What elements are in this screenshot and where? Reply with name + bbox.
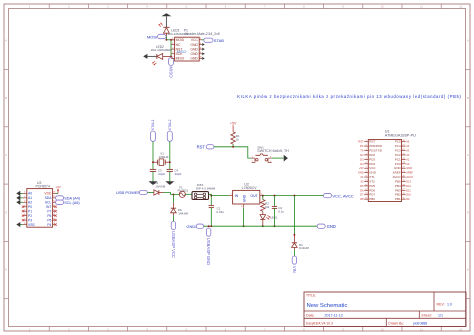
svg-text:AREF: AREF [406,171,413,175]
svg-text:PD0/RXD: PD0/RXD [369,144,383,148]
svg-text:TITLE:: TITLE: [306,293,316,297]
svg-text:D5: D5 [360,184,364,188]
port VIN (vertical) [292,256,297,273]
fuse F1 [179,191,185,197]
wire R1 to node [232,144,234,147]
label R2 [265,202,270,209]
svg-text:16: 16 [403,193,405,195]
wire U3 SCL [55,201,57,203]
svg-text:RST: RST [369,140,375,144]
label U1 value [385,134,416,138]
svg-text:DIP 4-2.54MM: DIP 4-2.54MM [196,186,216,190]
svg-text:VDD: VDD [44,192,52,196]
svg-text:PD3: PD3 [369,157,375,161]
jumper DIP1 [192,192,209,200]
port USB POWER [116,190,147,195]
wire SW1 to gnd [272,157,284,159]
svg-text:2: 2 [366,145,367,147]
svg-text:GND: GND [394,166,402,170]
port STAB [204,38,224,43]
crystal X1 [153,159,170,166]
svg-text:10: 10 [381,5,384,9]
svg-text:GND: GND [190,43,198,47]
svg-text:VSS: VSS [28,223,35,227]
svg-text:X1: X1 [360,175,364,179]
svg-text:16MHZ: 16MHZ [159,155,169,159]
wire C2 to rail [274,208,276,226]
wire U3 SDA [55,197,57,199]
svg-text:7: 7 [366,167,367,169]
svg-text:10k: 10k [265,205,270,209]
svg-text:P6: P6 [47,214,51,218]
port RST [197,145,214,150]
port GND [317,224,336,229]
svg-text:E: E [5,268,7,272]
svg-text:SDA: SDA [45,196,53,200]
svg-text:RX: RX [360,144,364,148]
svg-text:D: D [5,210,7,214]
svg-text:26: 26 [403,149,405,151]
wire vertical at P1 left [170,40,172,58]
label U2 [244,182,249,186]
label U3 [37,181,41,185]
label D1 [299,243,309,250]
wire D4 node to D6 [172,194,174,208]
wire U2 OUT to VCC port [263,195,323,197]
svg-text:PD5: PD5 [369,184,375,188]
svg-text:XT1: XT1 [369,175,375,179]
svg-text:17: 17 [403,189,405,191]
svg-text:D8: D8 [360,197,364,201]
label LED2 [156,45,164,49]
svg-text:6: 6 [366,162,367,164]
junction dot at C1 [210,195,212,197]
svg-text:KILKA pinów z bezpiecznikami k: KILKA pinów z bezpiecznikami kilka z prz… [237,94,461,99]
svg-text:1k: 1k [236,138,240,142]
junction dot D4/D6 [172,193,174,195]
svg-text:A1: A1 [28,196,32,200]
svg-text:GND: GND [190,47,198,51]
junction dot R2 top [262,195,264,197]
IC U1 ATMEGA328P [358,140,414,202]
netlabel on P1 SCK [177,50,187,54]
power flag +5V at R1 [230,122,237,132]
title block [304,292,466,327]
svg-text:5: 5 [366,158,367,160]
svg-text:9: 9 [366,175,367,177]
svg-text:14: 14 [365,198,367,200]
wire C3 to gnd [152,171,154,182]
diode D1 [292,243,298,250]
svg-text:PC1: PC1 [395,157,401,161]
label X1 [160,152,164,156]
svg-text:GND: GND [190,57,198,61]
wire P1 pin2 to STAB [202,39,204,41]
svg-text:A0: A0 [406,162,410,166]
wire U2 GND to rail [243,208,245,226]
svg-text:1N4148: 1N4148 [299,246,309,250]
svg-text:XTAL2: XTAL2 [168,119,172,130]
junction dot LED1 rail [262,225,264,227]
svg-text:PC3: PC3 [395,149,401,153]
wire DIP1 to U2 IN [209,194,230,195]
svg-text:Drawn By:: Drawn By: [388,321,404,325]
label DIP1 value [196,186,216,190]
svg-text:12: 12 [365,189,367,191]
svg-text:PD2: PD2 [369,153,375,157]
svg-text:TX: TX [360,149,364,153]
wire OUT down to R2 [262,196,264,200]
junction dot D1 mid [293,234,295,236]
wire D4 to F1 [163,193,179,195]
svg-text:GND: GND [327,224,336,229]
svg-text:VCC, AVCC: VCC, AVCC [332,193,353,198]
svg-text:D10: D10 [406,193,411,197]
wire USB POWER to D4 [148,192,154,194]
svg-text:0.33u: 0.33u [216,210,224,214]
svg-text:PB5: PB5 [395,179,401,183]
diode D4 [154,190,164,195]
svg-text:+5V: +5V [359,166,364,170]
svg-text:D13: D13 [406,179,411,183]
svg-text:New Schematic: New Schematic [307,303,348,309]
LED D1 indicator (LED1) [260,211,270,226]
svg-text:IN: IN [235,194,239,198]
svg-text:12: 12 [459,327,462,331]
junction dot RST/R1 [232,146,234,148]
wire D6 to USBASP VCC [172,216,174,222]
svg-text:19: 19 [403,180,405,182]
svg-text:D6: D6 [360,188,364,192]
port USBASP GND (vertical) [206,228,211,265]
junction dot MOSI/LED3 [165,39,167,41]
svg-text:P7: P7 [47,209,51,213]
svg-text:SWITCH 6x6x5, TH: SWITCH 6x6x5, TH [257,149,289,153]
svg-text:VCC: VCC [191,38,199,42]
power flag +5V at U3 VDD [55,185,60,194]
junction dot XTAL1 [152,161,154,163]
resistor R2 [261,200,265,212]
label D4 [154,181,165,188]
wire rail to D1 [293,196,295,243]
capacitor C4 [167,169,173,171]
svg-text:USBASP VCC: USBASP VCC [171,231,176,258]
svg-text:20: 20 [403,175,405,177]
junction dot C2 top [274,195,276,197]
label SW1 [257,145,264,149]
wire C4 to gnd [169,171,171,182]
svg-text:STAB: STAB [214,38,224,43]
port MISO (vertical) [169,58,174,79]
svg-text:A: A [5,39,7,43]
svg-text:A0: A0 [28,192,32,196]
svg-text:24: 24 [403,158,405,160]
svg-text:MISO: MISO [176,57,185,61]
svg-text:USBASP GND: USBASP GND [206,238,211,265]
wire OUT down to C2 [274,196,276,206]
ground arrow right of SW1 [284,155,288,162]
port SCL(A5) [56,200,81,205]
svg-text:0.1u: 0.1u [278,209,284,213]
label F1 [178,185,189,192]
svg-text:LED1: LED1 [270,216,278,220]
svg-text:22pF: 22pF [158,172,165,176]
svg-text:P2: P2 [28,214,32,218]
svg-text:15: 15 [403,198,405,200]
junction dot P1 left top [170,39,172,41]
svg-text:11: 11 [420,327,423,331]
svg-text:XT2: XT2 [369,179,375,183]
svg-text:AVCC: AVCC [393,175,402,179]
svg-text:OUT: OUT [250,194,258,198]
svg-text:USB POWER: USB POWER [116,190,141,195]
svg-text:MISO: MISO [177,50,187,54]
wire gnd rail [204,225,317,227]
svg-text:Sheet:: Sheet: [421,314,431,318]
svg-text:A: A [467,39,469,43]
LED D3 (LED3) [159,23,170,37]
svg-text:AVCC: AVCC [406,175,413,179]
junction dot U2 gnd rail [243,225,245,227]
label LED3 [171,28,179,32]
svg-text:C: C [467,153,469,157]
wire C1 to gnd rail [210,208,212,227]
wire XTAL1 down [152,141,154,169]
svg-text:XTAL1: XTAL1 [151,119,155,130]
svg-text:piotro888: piotro888 [413,321,427,325]
switch SW1 [252,154,272,163]
svg-text:A2: A2 [406,153,410,157]
svg-text:Header-Male-2.54_2x5: Header-Male-2.54_2x5 [185,32,220,36]
svg-text:P4: P4 [47,223,51,227]
annotation text [237,94,461,99]
svg-text:11: 11 [365,184,367,186]
port USBASP VCC (vertical) [171,221,176,258]
svg-text:ATMEGA328P-PU: ATMEGA328P-PU [385,134,416,138]
svg-text:D4: D4 [360,162,364,166]
svg-text:AREF: AREF [393,171,401,175]
ground arrows at U3 A0-A2,VSS [16,191,23,227]
svg-text:23: 23 [403,162,405,164]
svg-text:+5V: +5V [230,122,237,126]
label DIP1 [197,183,204,187]
svg-text:PB1: PB1 [395,197,401,201]
wire D1 to VIN [293,250,295,256]
svg-text:25: 25 [403,153,405,155]
svg-text:1N4148: 1N4148 [178,211,188,215]
svg-text:GND: GND [190,52,198,56]
junction dot P1 left LED2 [170,55,172,57]
svg-text:13: 13 [365,193,367,195]
svg-text:GND: GND [243,194,247,202]
svg-text:PB3: PB3 [395,188,401,192]
label C2 [278,206,284,213]
svg-text:8: 8 [366,171,367,173]
svg-text:FUSE01: FUSE01 [178,188,189,192]
svg-text:PB2: PB2 [395,193,401,197]
svg-text:18: 18 [403,184,405,186]
svg-text:12: 12 [459,5,462,9]
svg-text:2017-11-13: 2017-11-13 [325,314,343,318]
capacitor C3 [150,169,156,171]
label U3 value [36,185,50,189]
svg-text:+5V: +5V [55,185,60,189]
svg-text:C: C [5,153,7,157]
IC U3 PCF8574 [23,189,56,228]
label C3 [158,169,165,176]
svg-text:PC2: PC2 [395,153,401,157]
svg-text:PD7: PD7 [369,193,375,197]
svg-text:1.0: 1.0 [447,302,452,306]
svg-text:11: 11 [420,5,423,9]
svg-text:D3: D3 [360,157,364,161]
svg-text:P3: P3 [28,218,32,222]
port VCC,AVCC [324,193,354,198]
label P1 value [185,32,220,36]
junction dot XTAL2 [169,161,171,163]
svg-text:E: E [467,268,469,272]
capacitor C2 [272,206,277,208]
svg-text:D7: D7 [360,193,364,197]
svg-text:EasyEDA V4.10.3: EasyEDA V4.10.3 [306,321,333,325]
label X1 value [159,155,169,159]
svg-text:PCF8574: PCF8574 [36,185,50,189]
svg-text:A2: A2 [28,201,32,205]
svg-text:L7805CV: L7805CV [242,186,258,190]
svg-text:10: 10 [381,327,384,331]
svg-text:D12: D12 [406,184,411,188]
LED D2 (LED2) [152,54,171,66]
ground arrow below C3 [149,181,158,185]
svg-text:22pF: 22pF [175,172,182,176]
label U1 [385,130,390,134]
svg-text:GND: GND [369,171,377,175]
svg-text:B: B [5,96,7,100]
svg-text:REV:: REV: [437,302,445,306]
svg-text:PB4: PB4 [395,184,401,188]
no-connect crosses on U3 [22,206,57,226]
svg-text:27: 27 [403,145,405,147]
label LED1 [270,216,278,220]
label LED3 value [168,32,189,36]
svg-text:SCL: SCL [45,201,52,205]
svg-text:4: 4 [366,153,367,155]
svg-text:GND: GND [358,171,364,175]
svg-text:3: 3 [366,149,367,151]
wire RST to SW1 [214,147,252,158]
label C1 [216,206,224,214]
label R1 [236,134,240,141]
ground arrows at P1 GND pins [202,43,205,60]
svg-text:MOSI: MOSI [147,34,157,39]
svg-text:21: 21 [403,171,405,173]
regulator U2 L7805CV [229,190,263,208]
svg-text:RST: RST [358,140,364,144]
svg-text:P5: P5 [47,218,51,222]
svg-text:X2: X2 [360,179,364,183]
svg-text:D: D [467,210,469,214]
svg-text:1: 1 [366,140,367,142]
svg-text:P1: P1 [28,209,32,213]
svg-text:28: 28 [403,140,405,142]
port XTAL2 (vertical) [167,119,172,141]
power flag VCC (arrow up) [161,13,171,27]
junction dot C2 rail [274,225,276,227]
svg-text:MISO: MISO [169,66,174,78]
ground arrow (left) at LED2 [143,54,157,59]
connector P1 header 2x5 [171,37,203,61]
svg-text:PB0: PB0 [369,197,375,201]
wire F1 to DIP1 [185,193,192,195]
svg-text:D2: D2 [360,153,364,157]
svg-text:NC: NC [176,43,181,47]
svg-text:D9: D9 [406,197,410,201]
label C4 [174,169,181,176]
svg-text:1N4148: 1N4148 [155,184,165,188]
label LED2 value [151,48,172,52]
svg-text:VIN: VIN [292,266,297,273]
svg-text:PC0: PC0 [395,162,401,166]
svg-text:VCC: VCC [369,166,376,170]
svg-text:GND: GND [406,166,412,170]
wire node to C1 [210,196,212,206]
svg-text:RST: RST [197,145,206,150]
svg-text:PD4: PD4 [369,162,375,166]
diode D6 [171,208,177,215]
resistor R1 [231,132,235,144]
capacitor C1 [209,206,214,208]
label D6 [178,208,189,215]
svg-text:B: B [467,96,469,100]
label P1 [184,28,188,32]
ground arrow below C4 [165,181,174,185]
svg-text:PD6: PD6 [369,188,375,192]
svg-text:A4: A4 [406,144,410,148]
label SW1 value [257,149,289,153]
port SDA(A4) [56,196,81,201]
svg-text:PC4: PC4 [395,144,401,148]
svg-text:INT: INT [46,205,51,209]
svg-text:SCL (A5): SCL (A5) [64,201,80,205]
junction dot usbasp gnd [208,225,213,227]
svg-text:10: 10 [365,180,367,182]
svg-text:1/1: 1/1 [438,314,443,318]
svg-text:PD1/TXD: PD1/TXD [369,149,383,153]
port GND2 [186,224,203,229]
svg-text:20A-10MARED: 20A-10MARED [151,48,172,52]
svg-text:MOSI: MOSI [176,38,185,42]
junction dot VCC/D1 [293,195,295,197]
svg-text:A3: A3 [406,149,410,153]
wire MOSI port to P1 pin1 [166,37,174,40]
port MOSI [147,34,166,39]
svg-text:D11: D11 [406,188,411,192]
svg-text:22: 22 [403,167,405,169]
svg-text:A1: A1 [406,157,410,161]
wire XTAL2 down [169,141,171,169]
label U2 value [242,186,258,190]
port XTAL1 (vertical) [151,119,156,141]
svg-text:Date:: Date: [306,314,315,318]
svg-text:PC5: PC5 [395,140,401,144]
svg-text:P0: P0 [28,205,32,209]
svg-text:A5: A5 [406,140,410,144]
